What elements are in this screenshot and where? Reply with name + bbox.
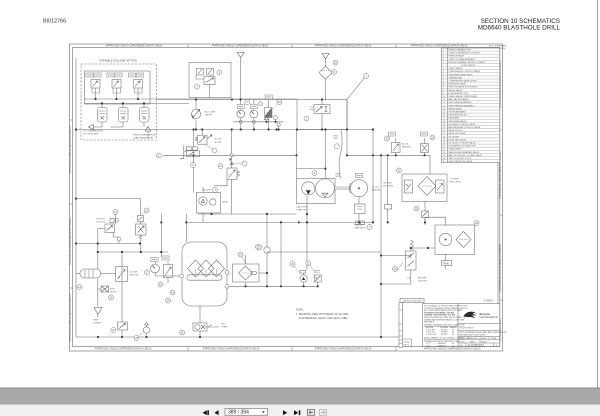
balloon check x267 [257,245,262,250]
vertical wire x=347 [346,100,348,156]
unloader valve V1 tags [86,73,93,77]
svg-text:LOAD SENSE PORT: LOAD SENSE PORT [133,136,154,139]
check valve ball CV2 [274,116,278,120]
wire valve down [321,114,323,130]
svg-text:GRND: GRND [222,202,229,204]
svg-text:SUPERSEDE DWXXG 98210 APPROVED: SUPERSEDE DWXXG 98210 APPROVED [69,217,72,265]
svg-text:SUCTION SIDE: SUCTION SIDE [83,133,99,135]
gauge G2 [250,110,258,118]
wire filter out to x267 [259,272,267,274]
return filter diamond [239,266,253,280]
engine mount box [355,204,366,214]
svg-text:THERMOSTAT: THERMOSTAT [449,76,463,79]
balloon motor group [213,188,218,193]
balloon tank left 1 [170,290,175,295]
filter bypass spring valve [405,180,413,193]
spring check component [227,168,237,180]
svg-text:SUPERSEDE DWXXG 98210 APPROVED: SUPERSEDE DWXXG 98210 APPROVED [499,244,502,292]
svg-text:ENG DR: ENG DR [372,189,381,191]
restrictor valve R1 [392,143,401,153]
parts table row lines [441,51,499,160]
toolbar previous-view icon [308,410,315,416]
check valve ball CV3 [277,123,280,126]
svg-text:TEST GP: TEST GP [130,274,139,276]
svg-text:OIL FLTR: OIL FLTR [383,183,392,185]
logo text [480,312,499,319]
balloon eng leader [334,144,339,149]
svg-text:OIL SUPPLY / RELIEF VALVE: OIL SUPPLY / RELIEF VALVE [449,142,476,145]
left margin zone ticks [69,120,502,300]
svg-text:CK. BY: CK. BY [459,341,466,343]
junction dots on y153 [193,154,195,156]
svg-text:APPROVED 345210 SUPERSEDE DWXX: APPROVED 345210 SUPERSEDE DWXXG 98210 [203,348,260,351]
aux pump stub [303,273,305,286]
junction dots right side [427,247,429,249]
svg-text:DATE 4/08: DATE 4/08 [469,337,478,340]
svg-text:APPROVED 345210 SUPERSEDE DWXX: APPROVED 345210 SUPERSEDE DWXXG 98210 [106,45,163,48]
supply triangle [322,54,329,60]
svg-text:J1 C23: J1 C23 [372,187,379,189]
svg-text:GAGE ASM: GAGE ASM [449,117,460,120]
pressure reducing valve stack tag [138,216,144,222]
balloon solenoid SX [430,135,435,140]
gauge station tag 1 [151,258,158,262]
parts table frame [441,48,500,163]
lube motor M1 [439,233,451,245]
svg-text:LUBE SPLY: LUBE SPLY [354,227,366,229]
wire y=242 left [76,243,140,245]
tank T1 [182,242,227,306]
unloader valve V1 [91,80,100,89]
aux motor stub [317,282,319,286]
suction arrow symbol [89,125,94,130]
logo area divider [458,324,500,337]
junction dots on pressure bus y129 [195,128,197,130]
svg-text:SUPERSEDE DWXXG 98210 APPROVED: SUPERSEDE DWXXG 98210 APPROVED [69,126,72,174]
svg-text:AC OIL: AC OIL [402,143,410,146]
unloader valve V3 tags [128,73,135,77]
wire pump down [195,121,197,130]
dashed enclosure box [81,64,157,140]
svg-text:APPROVED 345210 SUPERSEDE DWXX: APPROVED 345210 SUPERSEDE DWXXG 98210 [315,45,372,48]
svg-text:FILTER ASSEMBLY: FILTER ASSEMBLY [449,111,467,114]
svg-text:(NO SPIN): (NO SPIN) [383,185,393,187]
junction dots y252 [97,251,99,253]
svg-text:PUMP: PUMP [222,326,229,328]
toolbar next-view icon (disabled) [320,410,327,416]
tank left port [180,274,184,278]
svg-text:45 CX2: 45 CX2 [215,141,223,143]
vertical wire x=281 [280,222,282,286]
balloon filter leader wire [242,257,246,265]
svg-text:FROM COMPRESSOR: FROM COMPRESSOR [133,135,156,137]
balloon filter top [333,60,338,65]
toolbar dark band [0,388,600,405]
svg-text:W.O. SCHEMATIC: W.O. SCHEMATIC [489,44,508,47]
return filter box [233,264,260,282]
svg-text:PRESSURE GAGE: PRESSURE GAGE [449,83,467,86]
main pressure bus y=129.5 [153,129,373,131]
svg-text:LO PRES: LO PRES [450,179,460,181]
wire PRV [140,222,142,253]
junction dots y222 [280,221,282,223]
accumulator A1 [98,108,108,123]
svg-text:BALL VLV RELIEF / CLOSED VA: BALL VLV RELIEF / CLOSED VALVE [449,154,483,157]
LS bus wire y=99.5 [157,99,298,101]
wires gauge station [156,261,169,283]
LS port solenoid [110,219,114,223]
balloon LS port [113,210,118,215]
wire fill pump leader [205,325,219,328]
wire filter top [245,255,247,264]
unloader valve V2 [112,80,121,89]
compressor pump circle [199,197,207,205]
pressure reducing valve PRV [136,224,147,235]
wire down to filter [325,59,327,66]
M8 valve tags [186,147,191,150]
wire gauge station to tank [156,275,180,277]
svg-text:CX PLUG: CX PLUG [96,221,106,223]
svg-text:LS PORT: LS PORT [96,219,106,221]
svg-text:AC MTR: AC MTR [203,189,211,192]
title block title text [460,331,507,337]
svg-text:RETURN: RETURN [402,146,411,148]
svg-text:NONE: NONE [491,338,497,340]
bucyrus eagle logo [464,312,477,319]
svg-text:GAGE DRY GAGE: GAGE DRY GAGE [449,132,466,135]
junction dots bottom bus [97,336,99,338]
solenoid box SX [421,144,429,153]
svg-text:AC COMP: AC COMP [205,111,216,114]
revision notes header box [400,298,424,302]
wire valve top [321,100,323,105]
junction dots on LS bus [101,102,103,104]
svg-text:SOUTH MILW.: SOUTH MILW. [460,328,475,330]
balloon spring check [218,164,223,169]
pilot valve [204,77,215,85]
title block frame [423,304,500,347]
svg-text:UNLESS THERMAL SERVICE CONN: UNLESS THERMAL SERVICE CONNECT [449,61,488,64]
bottom margin zone ticks [187,347,189,352]
svg-text:CASE DR /: CASE DR / [354,224,365,227]
main pump P1 [316,179,335,198]
check valve CV1 [264,116,269,120]
drain wire to arrow [94,122,145,127]
wire LS valve feed [115,215,117,224]
svg-text:BI012766: BI012766 [43,18,66,24]
FC1 pilot arrow [208,135,212,139]
FC1 spring [195,137,197,141]
valve loop brackets [92,88,142,93]
solenoid small box [422,211,429,218]
drawing outer border [69,44,502,351]
svg-text:COMPRESSOR CONTROL VALVE: COMPRESSOR CONTROL VALVE [449,70,481,73]
svg-text:PUMP CPM: PUMP CPM [297,209,308,211]
left rail wire [75,58,77,337]
main pump (variable) [191,109,200,118]
svg-text:FLOW RESTRICTOR: FLOW RESTRICTOR [449,93,469,95]
balloon filter top [256,245,261,250]
wire from manifold down [195,98,197,110]
svg-text:SPD: SPD [336,176,341,178]
wire y=255 [381,255,411,257]
svg-text:PRESSURE GAGE VALVE: PRESSURE GAGE VALVE [449,73,474,76]
callout leader diagonal [347,78,365,100]
balloon lube motor [474,221,479,226]
relief valve RL1 [406,251,417,270]
toolbar first-page button [203,410,207,415]
balloon y153 line [156,153,161,158]
wire accumulator right [101,273,116,275]
check valve ball on x=267 [264,247,270,253]
bus wire y=155.3 right [347,154,430,156]
toolbar page number box [225,408,268,415]
balloon FC1 [212,148,217,153]
bypass capsule [251,271,257,274]
gauge G2 tag [250,105,257,109]
charge pump P2 [302,182,315,195]
accumulator A3 [140,108,150,123]
top margin zone ticks [187,44,189,47]
balloon PRV [144,208,149,213]
balloon filter right [332,70,337,75]
lube motor enclosure [435,225,475,255]
relief valve wire down [381,270,411,284]
junction dots y280 [395,154,397,156]
filter check element [436,180,445,193]
vent circle [259,102,263,106]
suction header capsule [187,275,222,280]
LS port valve [105,224,115,233]
svg-text:TEMP SENSOR ASSEMBLY: TEMP SENSOR ASSEMBLY [449,104,475,107]
wire small box [424,218,426,226]
svg-text:SUPERSEDE DWXXG 98210 APPROVED: SUPERSEDE DWXXG 98210 APPROVED [69,294,72,342]
svg-text:PRESSURE SW GP: PRESSURE SW GP [449,115,468,117]
flow control valve FC2 [116,267,128,282]
vertical wire x=267 [266,214,268,286]
svg-text:SHUTTLE VALVE KIT W/ GAGE: SHUTTLE VALVE KIT W/ GAGE [449,86,478,89]
toolbar light band [0,405,600,416]
svg-text:COMPRESSOR VALVE GP ATL: COMPRESSOR VALVE GP ATL [449,80,478,83]
svg-text:SHUT PRESS STD VALVE: SHUT PRESS STD VALVE [449,160,474,163]
toolbar last-page button [294,410,298,415]
svg-text:SERVICE VALVE: SERVICE VALVE [449,55,465,58]
accumulator A2 [119,108,129,123]
svg-text:International Inc: International Inc [480,315,499,319]
wire y=248 [411,248,435,251]
svg-text:COMP. COMPRESSOR CONTROL: COMP. COMPRESSOR CONTROL [449,53,482,55]
strainer stand pipes [196,269,217,275]
wire motor box bottom [445,255,447,270]
svg-text:DRAIN VALVE: DRAIN VALVE [449,148,463,151]
manifold bus 2 [85,102,190,104]
wire x=387.7 [387,155,389,222]
check mark [230,162,233,165]
svg-text:P/50/50: P/50/50 [441,334,448,336]
wire x=122 down [121,252,123,266]
balloon gauge station 2 [158,282,163,287]
balloon 61 manifold [217,70,222,75]
filter F1 diamond [319,66,332,79]
pressure switch tag [265,95,272,99]
vertical x=307 pump1 drop [306,196,308,270]
bottom bus wire y=337 [76,336,399,338]
arrow above spring check [229,159,231,161]
wire gauge feed x=161.3 [160,214,162,257]
junction dots gauge bus [265,121,267,123]
suction strainer 2 [198,260,214,277]
svg-text:4-0250 2: 4-0250 2 [484,300,494,303]
right vertical wire x=498 [497,163,499,304]
svg-text:1. BROKEN LINES UPSTREAM O: 1. BROKEN LINES UPSTREAM OF GG ARE [296,312,348,316]
balloon return filter [238,252,243,257]
svg-text:TANK: TANK [443,262,450,265]
revision strip [399,303,403,348]
svg-text:OIL FILTER: OIL FILTER [449,136,460,138]
balloon gauge left [245,100,250,105]
svg-text:APPROVED 345210 SUPERSEDE DWXX: APPROVED 345210 SUPERSEDE DWXXG 98210 [424,348,481,351]
svg-text:389 / 394: 389 / 394 [228,410,249,416]
svg-text:2 AB/50/25: 2 AB/50/25 [437,344,446,347]
balloon relief leader wire [397,263,403,271]
balloon relief valve [393,267,398,272]
FC1 leader to balloon [205,144,213,149]
svg-text:PRESSURE VALVE: PRESSURE VALVE [449,120,467,123]
wire rail top segment [76,129,153,131]
wire LS valve bottom [113,233,119,238]
svg-text:VARIABLE VOLUME OPTION: VARIABLE VOLUME OPTION [99,59,137,63]
svg-text:SPD: SPD [334,138,339,140]
pressure control enclosure [297,100,347,130]
tank vent riser [185,214,187,242]
balloon solenoid X [109,295,114,300]
drop wires to accumulators [102,103,144,107]
svg-text:MD6640 BLASTHOLE DRILL: MD6640 BLASTHOLE DRILL [460,334,487,337]
LS loop bracket [180,145,187,159]
svg-text:RET OPTS: RET OPTS [450,181,461,183]
balloon check [242,161,247,166]
aux pump tag [300,270,306,273]
wire x=425 filter to motor [424,201,426,221]
wire x=430 into filter [429,155,431,174]
unloader valve V3 [134,80,143,89]
tank tag [442,261,452,266]
balloon gauge station 1 [145,270,150,275]
wire spring check [231,130,233,215]
svg-text:APPROVED 345210 SUPERSEDE DWXX: APPROVED 345210 SUPERSEDE DWXXG 98210 [315,348,372,351]
load sense triangle [145,127,151,132]
compressor motor circle [210,199,216,205]
transfer pump circle [143,327,149,333]
engine E1 [350,180,367,197]
aux pump P3 [300,275,307,282]
junction dots left rail [75,128,77,130]
suction strainer 3 [209,260,225,277]
svg-text:FE/DE SCHEMATIC P/N: FE/DE SCHEMATIC P/N [449,49,472,52]
wire fill pump down [199,331,201,337]
svg-text:REV 2: REV 2 [404,345,409,347]
station gauge [151,264,160,273]
notes column divider lines [424,326,457,339]
wire engine down [358,197,360,223]
wire y=198.6 [76,199,141,216]
drain valve DV1 [118,322,128,330]
load tag 1 [388,132,395,136]
svg-text:50: 50 [452,345,454,347]
gauge station tag 2 [162,256,169,260]
orifice box x=387.7 [385,205,392,210]
balloon M8 [191,163,196,168]
svg-text:FOR BEARING, GEAR, AND SEA: FOR BEARING, GEAR, AND SEAL LUBE. [299,316,348,320]
tank drain port [225,284,229,288]
svg-text:NOTE:: NOTE: [296,308,304,312]
svg-text:4-0250261: 4-0250261 [468,344,484,348]
svg-text:CHECK VALVE: CHECK VALVE [449,67,463,70]
PRV spring [139,235,142,239]
engine speed leader [339,130,342,178]
wire x=396 [395,138,397,155]
manifold bus wire [85,98,297,100]
wire y=252 left [98,251,168,253]
svg-text:DISCHARGE OIL PRES PORT: DISCHARGE OIL PRES PORT [449,145,477,148]
pressure switch PS1 [265,108,273,118]
balloon aux pump 2 [306,261,311,266]
svg-text:SCALE: SCALE [481,337,488,340]
balloon aux pump 1 [290,262,295,267]
wire group box [202,187,204,222]
svg-text:4-0250: 4-0250 [404,342,410,344]
svg-text:SHUT VALVE ASSEMBLY: SHUT VALVE ASSEMBLY [449,101,473,104]
engine tag [355,173,362,177]
toolbar next-page button [283,410,287,415]
wire x=98 down [97,279,99,307]
aux motor tags [314,271,320,273]
aux motor box [314,275,321,282]
vertical wire x=240.6 [240,58,242,105]
wire accumulator left stub [76,273,80,275]
notes text column [424,305,468,348]
toolbar prev-page button [214,410,218,415]
upper pump shelf wire [297,168,326,170]
svg-text:OIL SAFETY / RELIEF VALVE: OIL SAFETY / RELIEF VALVE [449,123,476,126]
M8 valve body [187,151,200,157]
svg-text:VENT: VENT [93,320,99,322]
supply triangle gauge branch [237,53,244,58]
reducing valve RV1 [314,105,330,114]
svg-text:COMPONENTS: COMPONENTS [461,65,476,67]
check ball LS [117,237,121,241]
svg-text:3000 PSI: 3000 PSI [418,280,427,282]
vertical wire x=381 right rail [380,155,382,337]
tank right port [225,271,229,275]
svg-text:GAGE DRY GP: GAGE DRY GP [449,129,464,132]
shaft coupling [335,187,351,190]
svg-text:LEVEL INDICATOR: LEVEL INDICATOR [449,138,467,141]
gauge G1 [237,110,245,118]
vertical wire x=373 [372,130,374,223]
wire filter bottom [245,282,247,286]
title block field rows [458,337,500,347]
accumulator horizontal ACC2 [80,269,101,278]
wire inside manifold [196,75,204,79]
fill pump FP1 [193,323,207,331]
balloon pressure switch [277,100,282,105]
balloon small solenoid [414,206,419,211]
wire x=424 small [424,138,426,155]
svg-text:SEE TABLE: SEE TABLE [424,321,435,324]
FC1 wire top [201,130,203,136]
flow control valve FC1 [197,135,207,144]
